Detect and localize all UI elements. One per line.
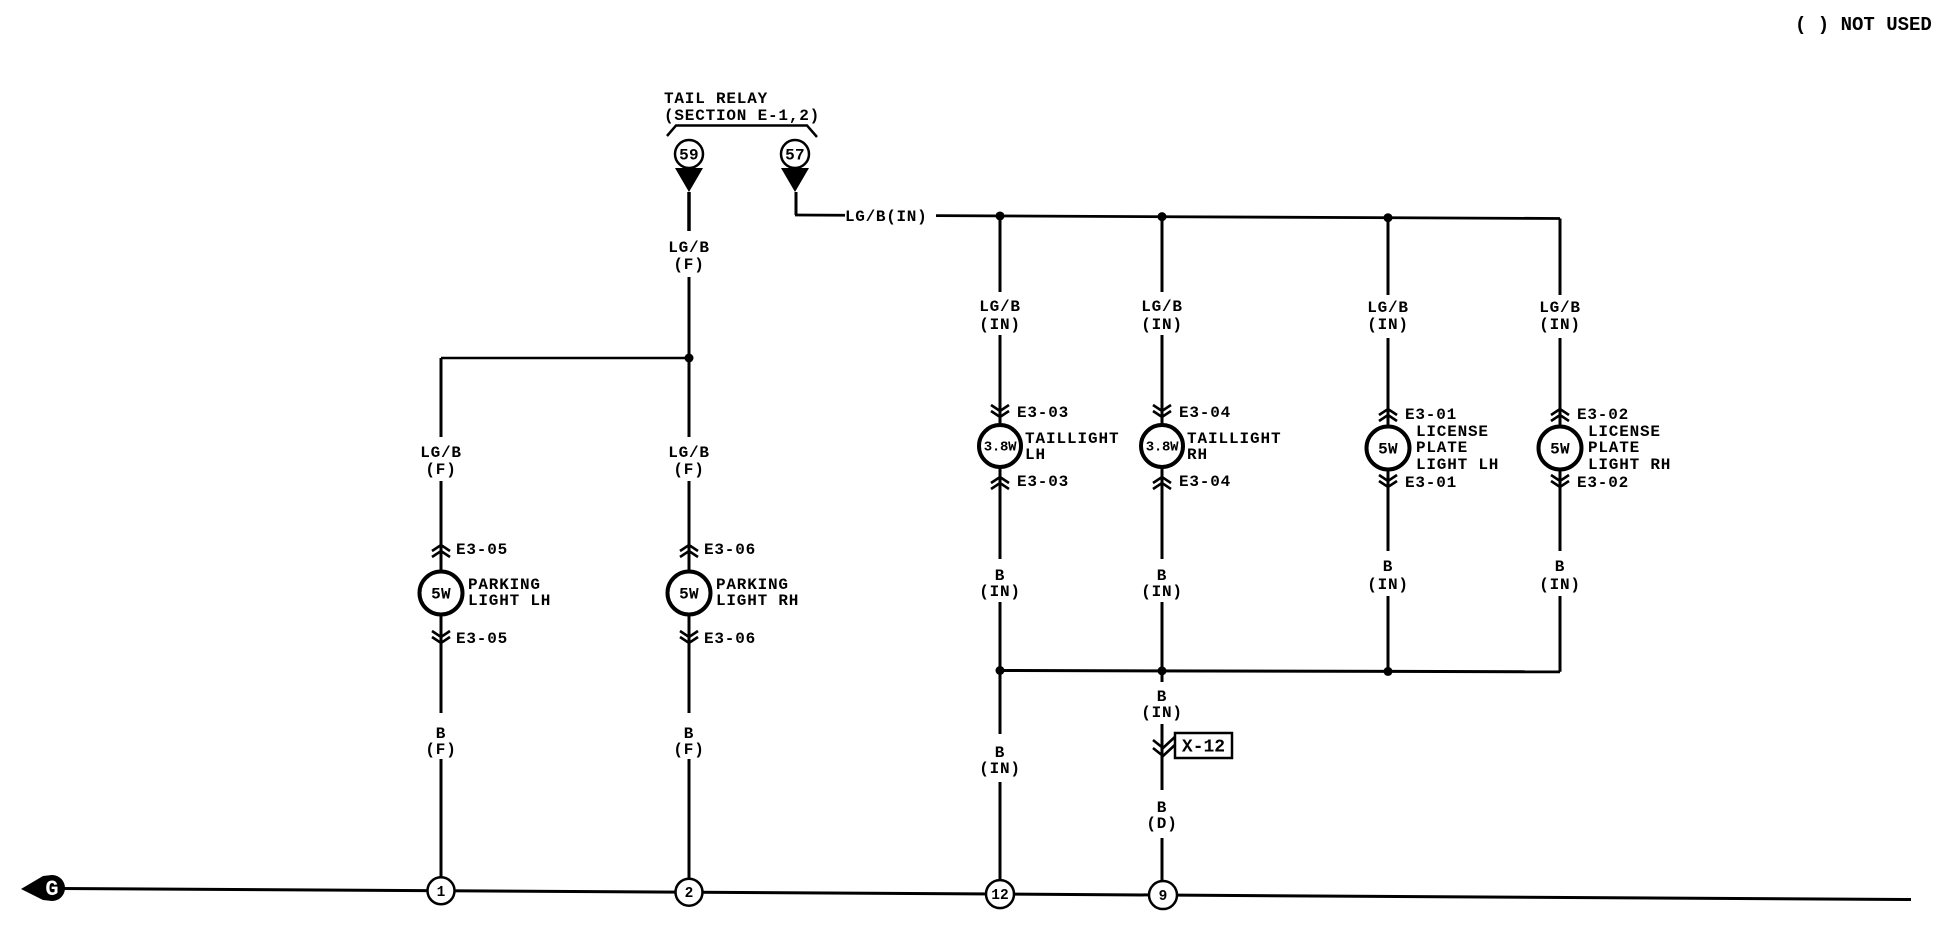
- svg-text:LIGHT LH: LIGHT LH: [468, 592, 551, 610]
- svg-text:(F): (F): [673, 256, 704, 274]
- svg-text:(IN): (IN): [979, 760, 1021, 778]
- svg-text:E3-04: E3-04: [1179, 404, 1231, 422]
- svg-text:B: B: [1383, 558, 1393, 576]
- svg-text:E3-05: E3-05: [456, 630, 508, 648]
- svg-text:LG/B: LG/B: [420, 444, 462, 462]
- svg-text:(F): (F): [673, 461, 704, 479]
- svg-text:5W: 5W: [1378, 441, 1398, 459]
- svg-text:LG/B: LG/B: [668, 239, 710, 257]
- svg-text:LIGHT RH: LIGHT RH: [1588, 456, 1671, 474]
- svg-text:LG/B: LG/B: [1141, 298, 1183, 316]
- svg-text:(IN): (IN): [1367, 576, 1409, 594]
- svg-text:(SECTION E-1,2): (SECTION E-1,2): [664, 107, 820, 125]
- svg-text:(IN): (IN): [979, 316, 1021, 334]
- svg-text:E3-04: E3-04: [1179, 473, 1231, 491]
- svg-text:5W: 5W: [431, 586, 451, 604]
- svg-text:B: B: [1555, 558, 1565, 576]
- svg-text:(IN): (IN): [1367, 316, 1409, 334]
- svg-text:5W: 5W: [1550, 441, 1570, 459]
- svg-text:E3-01: E3-01: [1405, 474, 1457, 492]
- svg-text:LG/B(IN): LG/B(IN): [845, 208, 927, 226]
- svg-text:(IN): (IN): [979, 583, 1021, 601]
- svg-text:57: 57: [785, 147, 805, 165]
- svg-text:(IN): (IN): [1141, 583, 1183, 601]
- svg-text:X-12: X-12: [1182, 738, 1225, 758]
- svg-text:(IN): (IN): [1539, 316, 1581, 334]
- svg-text:(IN): (IN): [1141, 316, 1183, 334]
- svg-text:E3-05: E3-05: [456, 541, 508, 559]
- svg-text:(F): (F): [673, 741, 704, 759]
- svg-text:LG/B: LG/B: [1367, 299, 1409, 317]
- svg-text:(IN): (IN): [1539, 576, 1581, 594]
- svg-text:TAIL RELAY: TAIL RELAY: [664, 90, 768, 108]
- svg-text:E3-01: E3-01: [1405, 406, 1457, 424]
- svg-text:LG/B: LG/B: [668, 444, 710, 462]
- svg-text:(D): (D): [1146, 815, 1177, 833]
- svg-text:LG/B: LG/B: [979, 298, 1021, 316]
- svg-text:G: G: [45, 877, 58, 902]
- svg-text:12: 12: [991, 888, 1008, 904]
- svg-text:1: 1: [437, 885, 446, 901]
- svg-text:9: 9: [1159, 889, 1168, 905]
- svg-text:LIGHT RH: LIGHT RH: [716, 592, 799, 610]
- svg-text:2: 2: [685, 886, 694, 902]
- svg-text:(F): (F): [425, 461, 456, 479]
- svg-text:59: 59: [679, 147, 699, 165]
- svg-text:5W: 5W: [679, 586, 699, 604]
- svg-text:E3-03: E3-03: [1017, 404, 1069, 422]
- svg-text:3.8W: 3.8W: [984, 440, 1017, 456]
- svg-text:E3-06: E3-06: [704, 630, 756, 648]
- svg-text:( ) NOT USED: ( ) NOT USED: [1795, 14, 1932, 36]
- svg-text:E3-02: E3-02: [1577, 406, 1629, 424]
- svg-text:E3-02: E3-02: [1577, 474, 1629, 492]
- svg-text:LIGHT LH: LIGHT LH: [1416, 456, 1499, 474]
- svg-text:E3-03: E3-03: [1017, 473, 1069, 491]
- svg-text:PLATE: PLATE: [1588, 439, 1640, 457]
- svg-text:(F): (F): [425, 741, 456, 759]
- svg-text:E3-06: E3-06: [704, 541, 756, 559]
- svg-text:LG/B: LG/B: [1539, 299, 1581, 317]
- svg-text:LH: LH: [1025, 446, 1046, 464]
- svg-text:RH: RH: [1187, 446, 1208, 464]
- svg-text:(IN): (IN): [1141, 704, 1183, 722]
- svg-text:PLATE: PLATE: [1416, 439, 1468, 457]
- svg-text:3.8W: 3.8W: [1146, 440, 1179, 456]
